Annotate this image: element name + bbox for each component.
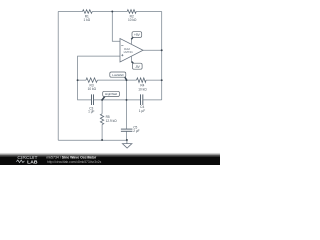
- component value labels: [83, 15, 147, 114]
- flag LowWall node: [110, 72, 127, 80]
- node output junction: [161, 49, 163, 51]
- capacitor C3 plates: [91, 94, 93, 105]
- op-amp OA2 triangle: [120, 39, 143, 63]
- resistor R5: [100, 114, 103, 125]
- node R5 top junction: [101, 99, 103, 101]
- resistor R1: [83, 10, 93, 14]
- wire top row right segment: [136, 11, 162, 13]
- node ground junction: [126, 139, 128, 141]
- node mid cross junction: [126, 99, 128, 101]
- node R3-R4 junction: [126, 79, 128, 81]
- wire R5 bottom lead: [101, 124, 103, 140]
- node R5 bottom junction: [101, 139, 103, 141]
- wire R4 right lead: [146, 79, 162, 81]
- op-amp V- stub: [130, 56, 132, 62]
- resistor R2: [127, 10, 136, 14]
- svg-text:+9V: +9V: [134, 33, 141, 37]
- svg-text:1 kΩ: 1 kΩ: [83, 18, 90, 22]
- svg-text:LAB: LAB: [27, 159, 37, 164]
- op-amp name label: [124, 47, 134, 54]
- junction dots: [77, 11, 163, 141]
- ground: [122, 140, 131, 148]
- svg-text:10 kΩ: 10 kΩ: [128, 18, 137, 22]
- op-amp input polarity marks: [121, 46, 123, 57]
- node R3 left junction: [77, 79, 79, 81]
- wire right vertical (output rail): [161, 12, 163, 100]
- capacitor C4 plates: [140, 94, 142, 105]
- resistor R4: [137, 78, 147, 83]
- wire opamp output: [143, 49, 162, 51]
- node R4 right junction: [161, 79, 163, 81]
- wire feedback drop to inverting input: [112, 12, 120, 42]
- svg-text:mk5734 / Sine Wave Oscillator: mk5734 / Sine Wave Oscillator: [46, 155, 97, 159]
- svg-text:LowWall: LowWall: [112, 73, 124, 77]
- wire left vertical (ground rail): [57, 12, 59, 141]
- svg-text:1 µF: 1 µF: [139, 109, 145, 113]
- svg-text:12.9 kΩ: 12.9 kΩ: [106, 119, 118, 123]
- wire between R3 and R4: [97, 79, 136, 81]
- svg-text:1 µF: 1 µF: [88, 110, 94, 114]
- wire node column between R3R4 row and mid row, down to C5: [126, 80, 128, 129]
- op-amp V+ stub: [130, 39, 132, 44]
- wire non-inverting input and left drop: [78, 56, 120, 100]
- node R1-R2 feedback junction: [111, 11, 113, 13]
- flag +9V: [131, 32, 141, 40]
- svg-text:2 µF: 2 µF: [133, 129, 139, 133]
- capacitor C5 plates: [121, 128, 132, 130]
- svg-text:http://circuitlab.com/c8mk5734: http://circuitlab.com/c8mk5734vr3x2s: [47, 160, 102, 164]
- resistor R3: [86, 78, 97, 83]
- flag HighWall node: [102, 91, 119, 99]
- wire R5 top lead: [101, 100, 103, 114]
- svg-text:10 kΩ: 10 kΩ: [138, 87, 147, 91]
- flag -9V: [132, 62, 143, 70]
- wire C5 bottom lead: [126, 131, 128, 140]
- wire top row middle segment: [92, 11, 127, 13]
- wire mid row between C3 and C4: [94, 99, 141, 101]
- svg-text:LM741: LM741: [124, 50, 134, 54]
- wire R3 left lead: [78, 79, 86, 81]
- footer bar: [0, 152, 220, 157]
- svg-text:10 kΩ: 10 kΩ: [88, 87, 97, 91]
- logo CircuitLab: [16, 155, 38, 164]
- svg-text:HighWall: HighWall: [105, 92, 117, 96]
- wire bottom row: [58, 139, 127, 141]
- wire top row left segment: [58, 11, 82, 13]
- svg-text:-9V: -9V: [135, 65, 141, 69]
- wire mid row right corner segment: [143, 99, 162, 101]
